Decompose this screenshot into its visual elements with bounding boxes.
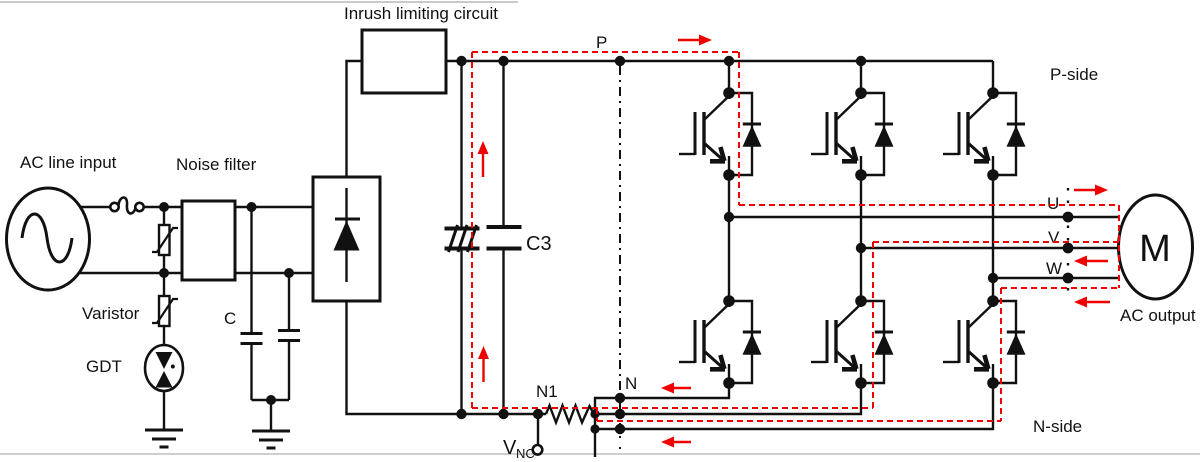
wire phase V xyxy=(861,247,1120,249)
svg-text:N1: N1 xyxy=(536,382,558,401)
red path: DC link up xyxy=(471,52,473,408)
wire P rail xyxy=(446,60,993,62)
svg-text:AC line input: AC line input xyxy=(20,153,117,172)
red arrow left @AC output xyxy=(1074,297,1110,308)
junction P @leg2 xyxy=(856,56,866,66)
junction P @leg1 xyxy=(724,56,734,66)
junction node L1 top xyxy=(159,202,169,212)
junction W @terminal xyxy=(1063,273,1074,284)
junction @595,429 xyxy=(590,424,599,433)
wire: rectifier bottom to N1 rail xyxy=(347,301,547,414)
IGBT Q3 upper leg3 xyxy=(943,87,1026,181)
ground (GDT) xyxy=(145,430,183,447)
red path: leg1 down xyxy=(738,52,740,205)
red arrow left @bottom xyxy=(661,437,691,448)
bridge rectifier BR1 xyxy=(313,177,380,301)
wire: rectifier top to inrush box xyxy=(347,61,363,177)
red arrow left @N xyxy=(661,383,691,394)
wire: noise filter to rectifier top xyxy=(235,206,313,208)
red arrow right @P xyxy=(678,35,712,46)
wire: noise filter to rectifier bottom xyxy=(235,272,313,274)
wire: caps common to ground xyxy=(252,399,290,401)
svg-text:GDT: GDT xyxy=(86,357,122,376)
red path: leg2 down xyxy=(872,242,874,408)
divider dash-dot line xyxy=(619,66,621,458)
junction @620,429 xyxy=(615,424,625,434)
inverter leg 1 vertical xyxy=(728,61,730,93)
svg-text:V: V xyxy=(1048,228,1060,247)
red path: N join xyxy=(596,408,598,421)
junction P @C3a xyxy=(456,56,466,66)
inverter leg 2 vertical xyxy=(860,61,862,93)
wire GDT to ground xyxy=(163,391,165,430)
svg-text:AC output: AC output xyxy=(1120,306,1196,325)
red path: N return upper xyxy=(472,407,873,409)
junction N1 rail @C3a xyxy=(456,409,466,419)
junction U @terminal xyxy=(1063,212,1074,223)
capacitor C (right) xyxy=(278,273,300,400)
junction X-cap top xyxy=(247,202,257,212)
junction @595,414 xyxy=(590,409,599,418)
svg-text:C: C xyxy=(224,309,236,328)
svg-text:M: M xyxy=(1139,228,1171,270)
IGBT Q1 upper leg1 xyxy=(679,87,762,181)
red path: W return xyxy=(1001,287,1119,289)
wire phase W xyxy=(993,277,1120,279)
capacitor C3 film leg xyxy=(487,61,522,414)
svg-text:U: U xyxy=(1047,194,1059,213)
IGBT Q2 upper leg2 xyxy=(811,87,894,181)
motor M xyxy=(1119,195,1193,299)
wire N bus lower (to leg3) xyxy=(595,383,993,429)
junction V @terminal xyxy=(1063,243,1074,254)
svg-text:C3: C3 xyxy=(526,233,552,255)
red arrow left @W xyxy=(1074,256,1108,267)
red path: motor internal xyxy=(1118,205,1120,288)
svg-text:Noise filter: Noise filter xyxy=(176,155,257,174)
red path: U forward xyxy=(739,204,1119,206)
svg-text:Inrush limiting circuit: Inrush limiting circuit xyxy=(344,4,498,23)
junction node L2 bottom xyxy=(159,268,169,278)
svg-text:N-side: N-side xyxy=(1033,417,1082,436)
junction N1 xyxy=(533,409,543,419)
red arrow up @C3 bottom xyxy=(478,346,489,382)
terminal VNC xyxy=(533,414,543,455)
svg-text:P-side: P-side xyxy=(1050,65,1098,84)
wire: common to ground xyxy=(270,400,272,431)
IGBT Q6 lower leg3 xyxy=(943,295,1026,389)
junction N1 rail @C3b xyxy=(498,409,508,419)
junction caps common xyxy=(266,395,276,405)
resistor R1 shunt xyxy=(546,406,594,423)
fuse F1 xyxy=(110,197,143,213)
svg-text:V: V xyxy=(503,437,517,459)
inverter leg 3 vertical xyxy=(992,61,994,93)
red path: P rail xyxy=(472,51,739,53)
ground (C) xyxy=(252,431,290,448)
red arrow up @C3 top xyxy=(478,141,489,177)
junction V tap xyxy=(856,243,866,253)
faint bottom border artifact xyxy=(0,453,1200,455)
junction @620,414 xyxy=(615,409,625,419)
wire stub below N bus xyxy=(594,429,596,457)
capacitor C (left) xyxy=(241,207,263,400)
red path: leg3 down xyxy=(1000,288,1002,421)
terminal dotted line xyxy=(1067,188,1069,300)
varistor RV1 (between lines) xyxy=(152,207,178,273)
red path: N return lower xyxy=(597,420,1001,422)
junction P @C3b xyxy=(498,56,508,66)
AC source V1 xyxy=(7,188,90,290)
wire: fuse to node L1 xyxy=(144,206,182,208)
noise filter box U2 xyxy=(182,201,235,280)
red path: V return xyxy=(873,241,1119,243)
svg-text:P: P xyxy=(596,33,607,52)
IGBT Q4 lower leg1 xyxy=(679,295,762,389)
junction X-cap bottom xyxy=(284,268,294,278)
svg-text:W: W xyxy=(1046,259,1062,278)
svg-text:NC: NC xyxy=(516,446,535,461)
wire: AC source bottom to noise filter xyxy=(78,272,182,274)
GDT tube xyxy=(145,345,183,391)
wire: AC source top to fuse xyxy=(79,206,111,208)
faint top border artifact xyxy=(0,1,518,3)
wire N1 rail (to leg2) xyxy=(594,383,861,414)
varistor RV2 (line to GDT) xyxy=(152,273,178,346)
junction W tap xyxy=(988,273,998,283)
inrush limiting circuit box U3 xyxy=(362,30,446,93)
junction P @divider xyxy=(615,56,625,66)
wire phase U xyxy=(729,216,1120,218)
junction N @620,398 xyxy=(615,393,625,403)
svg-text:N: N xyxy=(625,374,637,393)
wire N bus upper (to leg1) xyxy=(595,383,729,429)
svg-text:Varistor: Varistor xyxy=(82,304,140,323)
red arrow right @U xyxy=(1074,185,1108,196)
junction U tap xyxy=(724,212,734,222)
capacitor C3 electrolytic leg xyxy=(445,61,480,414)
IGBT Q5 lower leg2 xyxy=(811,295,894,389)
